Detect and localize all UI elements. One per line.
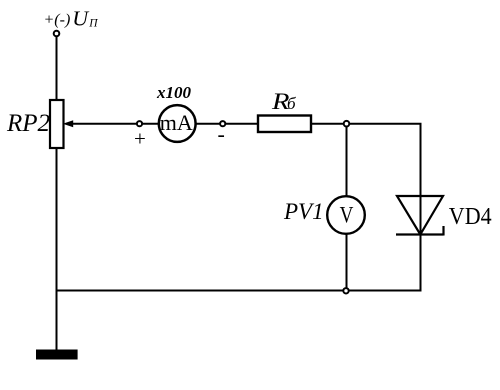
wire: supply vertical from terminal to ground bbox=[56, 37, 58, 350]
wire: resistor to right corner bbox=[311, 123, 422, 125]
zener diode VD4 bbox=[396, 196, 444, 236]
terminal: ammeter - bbox=[220, 121, 225, 126]
wire: voltmeter branch vertical bbox=[346, 124, 348, 291]
wire: bottom bus bbox=[56, 290, 422, 292]
terminal: supply input bbox=[54, 31, 60, 37]
svg-text:mA: mA bbox=[160, 110, 193, 135]
voltmeter PV1 bbox=[327, 196, 365, 234]
svg-text:+(-): +(-) bbox=[44, 11, 71, 28]
svg-text:V: V bbox=[340, 203, 354, 228]
node: bottom junction bbox=[343, 288, 348, 293]
svg-text:+: + bbox=[134, 127, 146, 151]
svg-text:U: U bbox=[72, 7, 90, 31]
svg-text:VD4: VD4 bbox=[449, 203, 492, 230]
ground bbox=[36, 350, 78, 360]
resistor Rб body bbox=[258, 116, 311, 133]
ammeter mA bbox=[159, 105, 196, 142]
svg-text:x100: x100 bbox=[156, 83, 192, 102]
wire: diode branch vertical bbox=[420, 124, 422, 291]
wire: wiper arrow from ammeter to RP2 bbox=[63, 120, 258, 127]
node: top junction bbox=[344, 121, 350, 127]
potentiometer RP2 body bbox=[50, 100, 64, 148]
svg-text:-: - bbox=[218, 122, 225, 147]
terminal: ammeter + bbox=[137, 121, 142, 126]
svg-text:б: б bbox=[287, 94, 296, 113]
svg-text:RP2: RP2 bbox=[6, 110, 50, 137]
svg-text:PV1: PV1 bbox=[283, 199, 324, 224]
svg-text:П: П bbox=[88, 17, 98, 29]
